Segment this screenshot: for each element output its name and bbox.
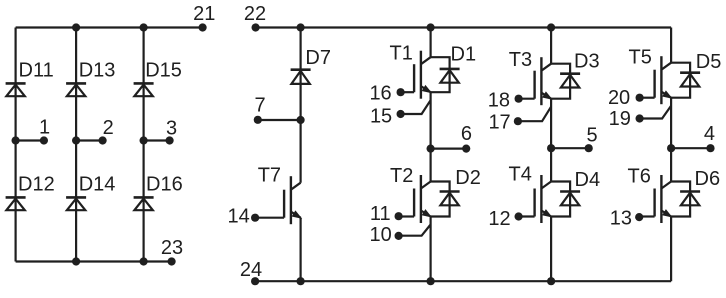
svg-text:D15: D15 [145, 60, 182, 82]
node junction bottom leg T2 [427, 277, 435, 285]
node terminal 24 [251, 277, 259, 285]
node terminal 16 [397, 88, 405, 96]
wire emitter sense lead T1 [401, 100, 431, 114]
svg-text:D11: D11 [19, 60, 54, 82]
diode D6 [680, 192, 700, 206]
wire emitter T5 [670, 98, 672, 149]
wire diode loop D3 [551, 64, 570, 99]
wire diode loop D4 [551, 182, 570, 217]
transistor T6 [640, 175, 672, 223]
svg-text:20: 20 [608, 87, 630, 109]
svg-text:T1: T1 [390, 42, 413, 64]
node terminal 18 [515, 95, 523, 103]
svg-text:24: 24 [240, 259, 262, 281]
wire diode loop D6 [671, 182, 690, 217]
node terminal 3 [166, 136, 174, 144]
wire emitter sense lead T3 [519, 107, 552, 122]
svg-text:22: 22 [244, 3, 266, 25]
svg-text:T7: T7 [258, 164, 281, 186]
node junction top D7 branch [297, 23, 305, 31]
diode D15 [134, 83, 154, 96]
svg-text:T3: T3 [509, 49, 532, 71]
node terminal 7 [254, 116, 262, 124]
wire phase node stub [431, 148, 467, 150]
svg-text:2: 2 [103, 117, 114, 139]
svg-text:D16: D16 [146, 174, 183, 196]
wire emitter T1 [430, 92, 432, 148]
wire collector T3 [550, 28, 552, 64]
svg-text:D1: D1 [451, 43, 477, 65]
node junction leg2 node2 [72, 136, 80, 144]
svg-text:10: 10 [370, 224, 392, 246]
node junction bottom leg3 [140, 257, 148, 265]
wire emitter sense lead T5 [640, 106, 672, 119]
wire phase node stub [671, 147, 710, 149]
transistor T1 [401, 51, 431, 99]
svg-text:1: 1 [39, 117, 50, 139]
node terminal 5 [585, 144, 593, 152]
diode D2 [440, 192, 460, 206]
svg-text:3: 3 [166, 117, 177, 139]
wire collector T6 [670, 148, 672, 181]
node junction top leg T3 [547, 23, 555, 31]
wire diode loop D2 [431, 182, 450, 217]
svg-text:D4: D4 [575, 169, 601, 191]
wire T7 emitter to bottom rail [300, 218, 302, 282]
wire stub node 7 [258, 119, 301, 121]
svg-text:D6: D6 [695, 168, 721, 190]
wire emitter sense lead T2 [399, 225, 431, 236]
svg-text:7: 7 [254, 95, 265, 117]
node terminal 19 [636, 114, 644, 122]
wire rectifier leg 3 [143, 28, 145, 262]
node terminal 15 [397, 110, 405, 118]
wire diode loop D5 [671, 63, 690, 98]
wire rectifier leg 2 [75, 28, 77, 262]
diode D12 [6, 197, 26, 210]
svg-text:D2: D2 [455, 167, 481, 189]
diode D5 [680, 73, 700, 87]
node terminal 17 [514, 117, 522, 125]
node junction bottom D7 branch [297, 277, 305, 285]
svg-text:23: 23 [161, 237, 183, 259]
svg-text:D3: D3 [574, 50, 600, 72]
diode D7 [291, 70, 311, 84]
transistor T7 [255, 176, 301, 224]
node junction top leg3 [140, 23, 148, 31]
node terminal 12 [515, 212, 523, 220]
node junction 7 [297, 116, 305, 124]
svg-text:4: 4 [704, 123, 715, 145]
wire bottom rail right section [255, 280, 671, 282]
wire emitter T3 [550, 99, 552, 149]
wire top rail right section [256, 26, 671, 28]
node junction leg1 node1 [12, 136, 20, 144]
wire rectifier leg 1 [15, 28, 17, 262]
wire stub node 3 [144, 139, 170, 141]
node terminal 22 [252, 23, 260, 31]
node terminal 23 [168, 257, 176, 265]
transistor T4 [519, 175, 552, 223]
node terminal 14 [251, 214, 259, 222]
transistor T5 [640, 56, 672, 104]
node terminal 6 [462, 145, 470, 153]
diode D11 [6, 83, 26, 96]
wire D7 branch upper [300, 28, 302, 183]
svg-text:T5: T5 [629, 46, 652, 68]
node junction top leg T1 [427, 23, 435, 31]
svg-text:T2: T2 [390, 165, 413, 187]
wire emitter T2 to bottom rail [430, 217, 432, 282]
wire top rail left section [16, 26, 203, 28]
svg-text:5: 5 [586, 125, 597, 147]
svg-text:16: 16 [369, 82, 391, 104]
node junction leg3 node3 [140, 136, 148, 144]
wire diode loop D1 [431, 57, 450, 92]
wire bottom rail left section [16, 260, 172, 262]
svg-text:D12: D12 [18, 174, 55, 196]
transistor T2 [399, 175, 431, 223]
node terminal 2 [99, 136, 107, 144]
wire emitter T4 to bottom rail [550, 217, 552, 282]
svg-text:17: 17 [488, 111, 510, 133]
diode D4 [560, 192, 580, 206]
node terminal 10 [395, 232, 403, 240]
node terminal 4 [706, 144, 714, 152]
transistor T3 [519, 57, 552, 105]
diode D14 [66, 197, 86, 210]
node junction phase 5 [547, 144, 555, 152]
svg-text:21: 21 [193, 3, 215, 25]
wire phase node stub [551, 147, 589, 149]
wire emitter T6 to bottom rail [670, 217, 672, 282]
diode D16 [134, 197, 154, 210]
node junction bottom leg T4 [547, 277, 555, 285]
svg-text:12: 12 [488, 208, 510, 230]
svg-text:19: 19 [609, 108, 631, 130]
svg-text:13: 13 [610, 208, 632, 230]
wire stub node 1 [16, 139, 44, 141]
svg-text:6: 6 [461, 123, 472, 145]
svg-text:11: 11 [370, 203, 391, 225]
wire collector T1 [430, 28, 432, 58]
wire collector T2 [430, 149, 432, 182]
node terminal 11 [395, 212, 403, 220]
svg-text:D14: D14 [79, 174, 116, 196]
diode D3 [560, 74, 580, 88]
diode D1 [440, 69, 460, 83]
svg-text:14: 14 [228, 206, 250, 228]
wire stub node 2 [76, 139, 103, 141]
svg-text:D5: D5 [696, 51, 722, 73]
svg-text:T6: T6 [628, 165, 651, 187]
diode D13 [66, 83, 86, 96]
node junction phase 4 [667, 144, 675, 152]
wire collector T4 [550, 148, 552, 181]
node terminal 1 [40, 136, 48, 144]
svg-text:15: 15 [370, 106, 392, 128]
node terminal 21 [199, 23, 207, 31]
wire collector T5 [670, 28, 672, 63]
svg-text:D7: D7 [305, 47, 331, 69]
node junction phase 6 [427, 145, 435, 153]
svg-text:18: 18 [488, 90, 510, 112]
node junction top leg2 [72, 23, 80, 31]
svg-text:T4: T4 [509, 164, 532, 186]
node junction bottom leg2 [72, 257, 80, 265]
node terminal 20 [636, 94, 644, 102]
node terminal 13 [635, 213, 643, 221]
svg-text:D13: D13 [79, 60, 116, 82]
